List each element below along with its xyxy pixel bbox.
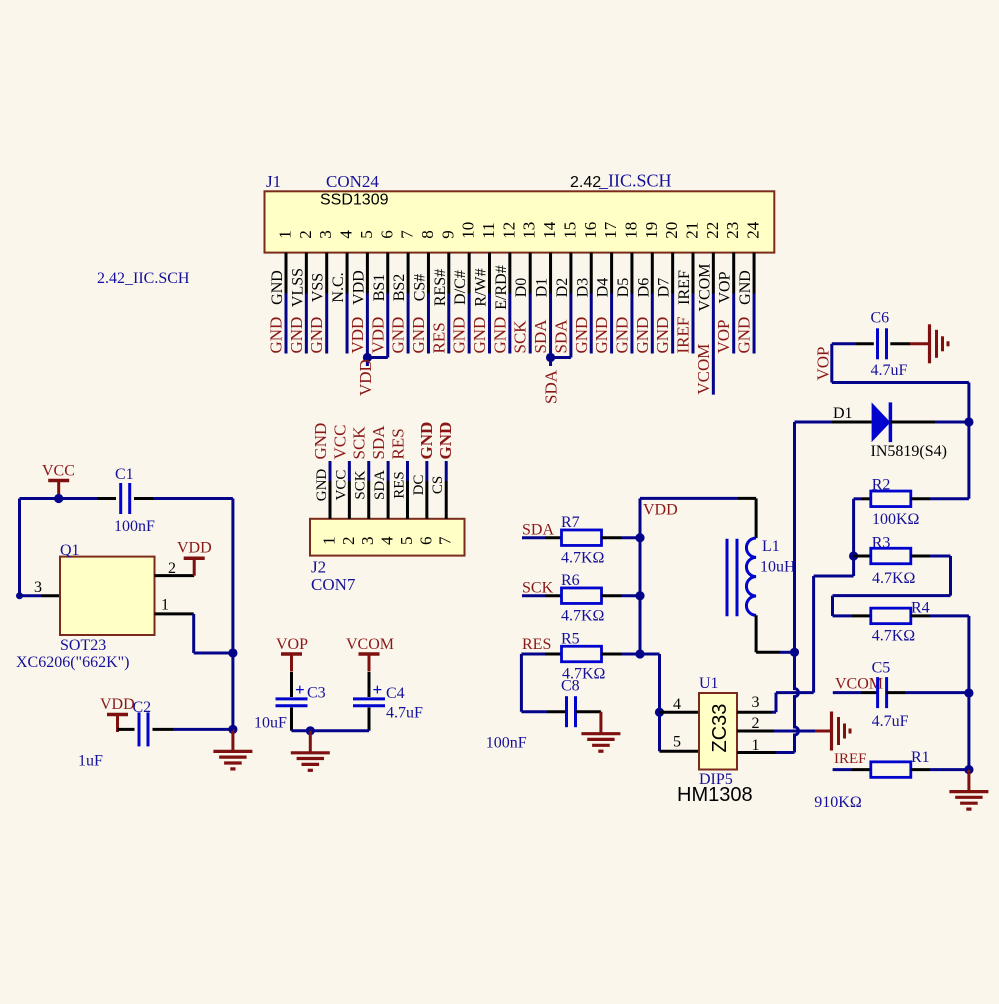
- svg-text:CS#: CS#: [411, 274, 428, 302]
- svg-text:E/RD#: E/RD#: [493, 265, 510, 309]
- svg-text:SDA: SDA: [551, 319, 570, 354]
- svg-text:VCC: VCC: [330, 425, 349, 460]
- svg-text:ZC33: ZC33: [709, 704, 731, 753]
- svg-text:D2: D2: [554, 278, 571, 298]
- svg-text:D0: D0: [513, 278, 530, 298]
- svg-text:GND: GND: [612, 317, 631, 354]
- svg-text:VDD: VDD: [643, 502, 678, 519]
- svg-text:100nF: 100nF: [114, 518, 155, 535]
- svg-text:100nF: 100nF: [486, 735, 527, 752]
- svg-text:VCOM: VCOM: [346, 636, 394, 653]
- svg-text:7: 7: [436, 536, 455, 545]
- svg-text:GND: GND: [592, 317, 611, 354]
- svg-text:DC: DC: [411, 475, 427, 496]
- svg-text:10uH: 10uH: [760, 559, 796, 576]
- svg-text:C5: C5: [872, 660, 891, 677]
- svg-text:15: 15: [560, 222, 579, 239]
- svg-text:4.7KΩ: 4.7KΩ: [872, 628, 916, 645]
- svg-text:J2: J2: [311, 558, 326, 577]
- svg-text:GND: GND: [572, 317, 591, 354]
- svg-text:22: 22: [703, 222, 722, 239]
- svg-text:910KΩ: 910KΩ: [814, 794, 862, 811]
- svg-text:GND: GND: [436, 422, 455, 460]
- svg-text:CS: CS: [430, 476, 446, 494]
- svg-text:D1: D1: [534, 278, 551, 298]
- svg-text:N.C.: N.C.: [330, 272, 347, 302]
- svg-text:5: 5: [397, 537, 416, 546]
- svg-text:VDD: VDD: [177, 540, 212, 557]
- svg-text:D1: D1: [833, 405, 853, 422]
- svg-text:4.7KΩ: 4.7KΩ: [561, 608, 605, 625]
- svg-text:VDD: VDD: [348, 317, 367, 354]
- svg-text:17: 17: [601, 221, 620, 239]
- svg-text:3: 3: [34, 579, 42, 596]
- svg-text:R1: R1: [911, 749, 930, 766]
- svg-text:GND: GND: [735, 317, 754, 354]
- svg-text:+: +: [373, 680, 383, 699]
- svg-text:GND: GND: [409, 317, 428, 354]
- svg-text:SDA: SDA: [531, 319, 550, 354]
- svg-text:SCK: SCK: [350, 426, 369, 460]
- svg-text:CON24: CON24: [326, 172, 379, 191]
- svg-text:1: 1: [320, 537, 339, 546]
- svg-text:13: 13: [520, 222, 539, 239]
- svg-text:2: 2: [339, 537, 358, 546]
- svg-text:GND: GND: [311, 423, 330, 460]
- svg-text:VDD: VDD: [356, 359, 375, 396]
- svg-text:GND: GND: [653, 317, 672, 354]
- svg-text:4.7uF: 4.7uF: [871, 362, 908, 379]
- svg-text:SDA: SDA: [522, 522, 554, 539]
- svg-text:RES: RES: [391, 471, 407, 499]
- svg-text:VSS: VSS: [310, 273, 327, 302]
- svg-text:IN5819(S4): IN5819(S4): [871, 443, 947, 460]
- svg-text:Q1: Q1: [60, 542, 80, 559]
- svg-text:11: 11: [479, 222, 498, 238]
- svg-text:2: 2: [752, 715, 760, 732]
- svg-text:2: 2: [168, 560, 176, 577]
- svg-text:RES: RES: [388, 428, 407, 459]
- svg-text:GND: GND: [450, 317, 469, 354]
- svg-text:D7: D7: [656, 278, 673, 298]
- svg-text:HM1308: HM1308: [677, 784, 753, 806]
- svg-text:CON7: CON7: [311, 575, 356, 594]
- svg-text:GND: GND: [633, 317, 652, 354]
- svg-text:R6: R6: [561, 572, 580, 589]
- svg-text:14: 14: [540, 221, 559, 239]
- svg-text:9: 9: [438, 230, 457, 239]
- svg-text:VDD: VDD: [100, 696, 135, 713]
- svg-text:3: 3: [316, 230, 335, 239]
- svg-text:VOP: VOP: [717, 271, 734, 303]
- svg-text:C4: C4: [386, 685, 405, 702]
- svg-text:GND: GND: [307, 317, 326, 354]
- svg-text:GND: GND: [314, 469, 330, 502]
- svg-text:SCK: SCK: [522, 580, 554, 597]
- svg-text:BS2: BS2: [391, 274, 408, 302]
- svg-text:24: 24: [744, 221, 763, 239]
- svg-text:SCK: SCK: [353, 470, 369, 499]
- svg-text:7: 7: [398, 230, 417, 239]
- svg-text:SDA: SDA: [372, 470, 388, 500]
- svg-text:2.42_IIC.SCH: 2.42_IIC.SCH: [97, 270, 190, 287]
- svg-text:SCK: SCK: [511, 320, 530, 354]
- svg-text:VCOM: VCOM: [835, 676, 883, 693]
- svg-text:C2: C2: [133, 699, 152, 716]
- svg-text:GND: GND: [267, 317, 286, 354]
- svg-text:BS1: BS1: [371, 274, 388, 302]
- svg-text:1: 1: [276, 230, 295, 239]
- svg-text:GND: GND: [417, 422, 436, 460]
- svg-text:VCOM: VCOM: [694, 344, 713, 395]
- svg-text:SOT23: SOT23: [60, 637, 106, 654]
- svg-text:19: 19: [642, 222, 661, 239]
- svg-text:8: 8: [418, 230, 437, 239]
- svg-text:VLSS: VLSS: [289, 268, 306, 307]
- svg-text:D3: D3: [574, 278, 591, 298]
- svg-text:C8: C8: [561, 678, 580, 695]
- svg-text:4: 4: [337, 230, 356, 239]
- svg-text:R/W#: R/W#: [473, 268, 490, 306]
- svg-text:21: 21: [683, 222, 702, 239]
- svg-text:+: +: [295, 680, 305, 699]
- svg-text:RES: RES: [429, 322, 448, 353]
- svg-text:5: 5: [357, 230, 376, 239]
- svg-text:SSD1309: SSD1309: [320, 192, 389, 209]
- svg-text:IREF: IREF: [674, 317, 693, 354]
- svg-text:_IIC.SCH: _IIC.SCH: [598, 171, 672, 191]
- svg-text:12: 12: [499, 222, 518, 239]
- svg-text:GND: GND: [737, 270, 754, 305]
- svg-text:3: 3: [752, 694, 760, 711]
- svg-text:XC6206("662K"): XC6206("662K"): [16, 654, 130, 671]
- svg-text:VCC: VCC: [333, 470, 349, 501]
- svg-text:4.7uF: 4.7uF: [872, 713, 909, 730]
- svg-text:100KΩ: 100KΩ: [872, 511, 920, 528]
- svg-text:L1: L1: [762, 538, 780, 555]
- svg-text:4.7uF: 4.7uF: [386, 705, 423, 722]
- svg-text:1: 1: [161, 597, 169, 614]
- svg-text:6: 6: [416, 537, 435, 546]
- svg-text:4.7KΩ: 4.7KΩ: [872, 570, 916, 587]
- svg-text:4.7KΩ: 4.7KΩ: [561, 550, 605, 567]
- svg-text:2.42: 2.42: [570, 174, 601, 191]
- svg-text:R5: R5: [561, 631, 580, 648]
- svg-text:C6: C6: [871, 310, 890, 327]
- svg-text:4: 4: [378, 536, 397, 545]
- svg-text:18: 18: [621, 222, 640, 239]
- svg-text:D6: D6: [635, 278, 652, 298]
- svg-text:VCOM: VCOM: [696, 263, 713, 311]
- svg-text:IREF: IREF: [676, 270, 693, 305]
- svg-text:IREF: IREF: [834, 751, 867, 767]
- svg-text:R4: R4: [911, 600, 930, 617]
- svg-text:16: 16: [581, 222, 600, 239]
- svg-text:VDD: VDD: [350, 270, 367, 305]
- svg-text:GND: GND: [389, 317, 408, 354]
- svg-text:GND: GND: [490, 317, 509, 354]
- svg-text:C3: C3: [307, 685, 326, 702]
- svg-text:GND: GND: [470, 317, 489, 354]
- svg-text:10uF: 10uF: [254, 715, 287, 732]
- svg-text:C1: C1: [115, 466, 134, 483]
- svg-text:SDA: SDA: [369, 425, 388, 460]
- svg-text:20: 20: [662, 222, 681, 239]
- svg-text:10: 10: [459, 222, 478, 239]
- svg-text:VOP: VOP: [276, 636, 308, 653]
- svg-text:2: 2: [296, 230, 315, 239]
- svg-text:U1: U1: [699, 675, 719, 692]
- svg-text:SDA: SDA: [542, 369, 561, 404]
- svg-text:D5: D5: [615, 278, 632, 298]
- svg-text:4: 4: [673, 696, 681, 713]
- svg-text:RES: RES: [522, 636, 551, 653]
- svg-text:23: 23: [723, 222, 742, 239]
- svg-text:GND: GND: [287, 317, 306, 354]
- svg-text:R7: R7: [561, 514, 580, 531]
- svg-text:VOP: VOP: [714, 319, 733, 353]
- svg-text:6: 6: [377, 230, 396, 239]
- svg-text:VDD: VDD: [368, 317, 387, 354]
- svg-text:D4: D4: [595, 278, 612, 298]
- svg-text:1uF: 1uF: [78, 753, 103, 770]
- svg-text:GND: GND: [269, 270, 286, 305]
- svg-text:RES#: RES#: [432, 269, 449, 306]
- svg-text:VCC: VCC: [42, 463, 75, 480]
- svg-text:D/C#: D/C#: [452, 270, 469, 305]
- svg-text:3: 3: [358, 537, 377, 546]
- svg-text:5: 5: [673, 734, 681, 751]
- svg-text:J1: J1: [266, 172, 281, 191]
- svg-text:VOP: VOP: [814, 346, 833, 380]
